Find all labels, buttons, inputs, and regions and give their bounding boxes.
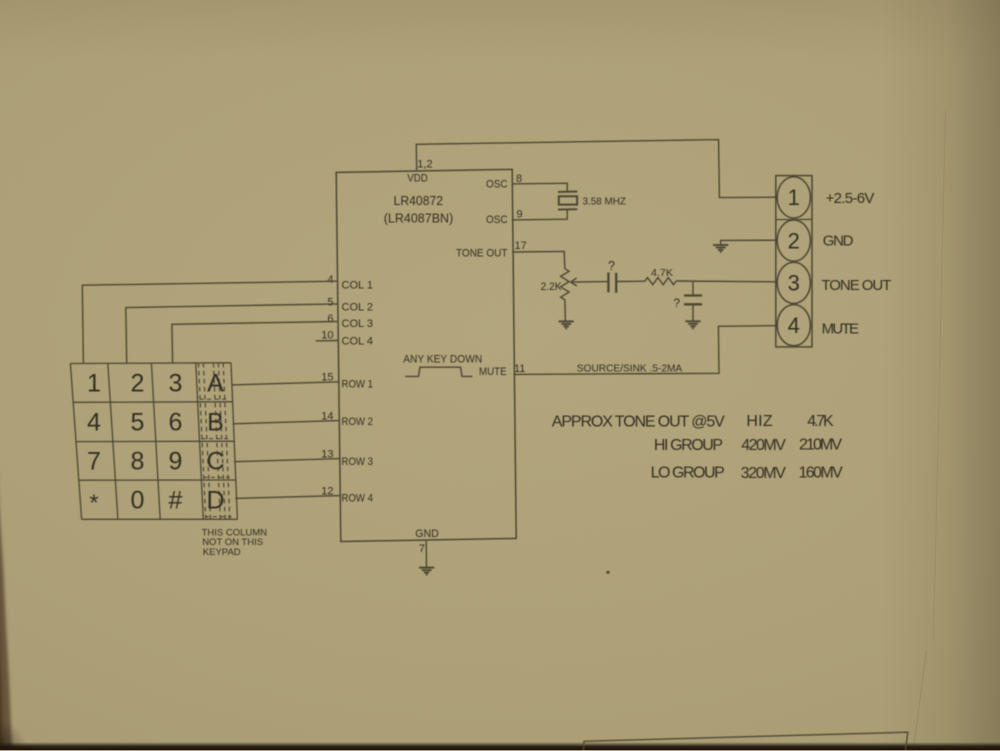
wire COL3: IC pin 6 to keypad column 3 xyxy=(172,322,337,364)
IC pin name labels xyxy=(342,172,508,540)
wire ROW1: keypad to IC pin 15 xyxy=(232,382,339,385)
svg-text:3.58 MHZ: 3.58 MHZ xyxy=(583,196,627,208)
svg-text:420MV: 420MV xyxy=(741,437,786,454)
svg-text:2: 2 xyxy=(131,369,145,397)
svg-text:ROW 2: ROW 2 xyxy=(342,416,374,428)
svg-text:11: 11 xyxy=(514,363,525,375)
svg-text:#: # xyxy=(169,487,183,515)
pot wiper arrow xyxy=(571,278,608,286)
any-key-down pulse waveform xyxy=(405,367,472,376)
svg-text:LR40872: LR40872 xyxy=(394,193,444,208)
svg-text:*: * xyxy=(90,490,99,516)
connector pin numbers xyxy=(788,185,800,338)
svg-text:GND: GND xyxy=(823,233,854,250)
svg-text:KEYPAD: KEYPAD xyxy=(203,547,241,558)
wire TONE OUT pin 17 xyxy=(512,251,565,268)
svg-text:5: 5 xyxy=(131,409,145,437)
keypad key legends xyxy=(87,369,224,515)
dashed lines: phantom 4th keypad column xyxy=(198,363,231,520)
svg-text:(LR4087BN): (LR4087BN) xyxy=(384,210,454,225)
svg-text:7: 7 xyxy=(87,448,101,476)
svg-text:10: 10 xyxy=(321,330,333,342)
svg-text:COL 3: COL 3 xyxy=(342,318,374,330)
wire VDD net: IC pins 1,2 to connector pin 1 xyxy=(416,140,776,198)
svg-text:8: 8 xyxy=(131,448,145,476)
svg-text:ANY KEY DOWN: ANY KEY DOWN xyxy=(403,353,482,365)
wire COL4 stub: IC pin 10 xyxy=(316,340,338,342)
wire ROW4: keypad to IC pin 12 xyxy=(235,496,341,499)
svg-text:9: 9 xyxy=(169,448,183,476)
svg-text:VDD: VDD xyxy=(407,172,428,184)
svg-text:GND: GND xyxy=(415,528,439,540)
IC U1 LR40872 body xyxy=(336,169,516,541)
svg-text:A: A xyxy=(207,369,224,397)
svg-text:3: 3 xyxy=(169,369,183,397)
svg-text:LO GROUP: LO GROUP xyxy=(651,465,725,482)
potentiometer R1 2.2K xyxy=(561,269,570,321)
svg-text:SOURCE/SINK .5-2MA: SOURCE/SINK .5-2MA xyxy=(577,362,682,374)
svg-text:9: 9 xyxy=(517,208,523,220)
svg-text:HIZ: HIZ xyxy=(746,413,773,430)
IC pin numbers xyxy=(321,159,527,555)
title block (bottom, mostly cropped) xyxy=(583,732,907,750)
svg-text:4: 4 xyxy=(87,409,101,437)
connector pin 3 circle xyxy=(777,262,810,303)
bottom-left corner extra dark xyxy=(0,700,60,750)
wire ROW3: keypad to IC pin 13 xyxy=(234,459,340,462)
svg-text:5: 5 xyxy=(327,297,333,309)
svg-text:?: ? xyxy=(673,296,680,310)
top edge darkening xyxy=(0,0,1000,60)
svg-text:MUTE: MUTE xyxy=(822,320,859,337)
svg-text:1: 1 xyxy=(788,185,800,210)
resistor R2 4.7K xyxy=(645,278,676,285)
svg-text:4: 4 xyxy=(788,313,800,338)
connector J1 4-pin header xyxy=(776,176,812,347)
ground xyxy=(559,321,574,328)
wire OSC pin 9 xyxy=(512,210,568,220)
bottom-right crease xyxy=(913,650,928,751)
wire OSC pin 8 xyxy=(512,183,567,192)
svg-text:3: 3 xyxy=(788,271,800,296)
svg-text:APPROX TONE OUT @5V: APPROX TONE OUT @5V xyxy=(552,414,725,431)
svg-text:6: 6 xyxy=(169,409,183,437)
stray ink dot xyxy=(606,571,609,574)
connector pin 1 circle xyxy=(777,177,810,218)
svg-text:17: 17 xyxy=(515,240,527,252)
svg-text:C: C xyxy=(206,448,224,476)
connector pin 4 circle xyxy=(777,305,810,346)
svg-text:210MV: 210MV xyxy=(799,437,842,454)
crystal Y1 3.58 MHZ xyxy=(558,192,577,210)
ground xyxy=(685,321,700,328)
svg-text:1: 1 xyxy=(87,369,101,397)
note: phantom column xyxy=(202,528,268,558)
bottom dark band xyxy=(0,742,1000,751)
connector pin 2 circle xyxy=(777,220,810,261)
wire resistor to connector pin 3 xyxy=(676,280,776,283)
svg-text:8: 8 xyxy=(516,173,522,185)
wire COL1: IC pin 4 to keypad column 1 xyxy=(82,281,336,363)
svg-text:ROW 3: ROW 3 xyxy=(342,456,374,468)
svg-text:COL 4: COL 4 xyxy=(342,335,374,347)
svg-text:4.7K: 4.7K xyxy=(651,267,673,279)
svg-text:1,2: 1,2 xyxy=(417,159,432,171)
svg-text:4: 4 xyxy=(327,274,333,286)
svg-text:COL 1: COL 1 xyxy=(342,280,374,292)
svg-text:2.2K: 2.2K xyxy=(541,281,563,293)
ground connector pin 2 xyxy=(713,245,728,252)
table: approx tone out levels xyxy=(552,413,843,482)
svg-text:B: B xyxy=(207,409,224,437)
capacitor C2 (shunt, value ?) xyxy=(692,281,694,295)
capacitor C1 (series, value ?) xyxy=(608,273,616,293)
svg-text:ROW 1: ROW 1 xyxy=(342,379,374,391)
svg-text:HI GROUP: HI GROUP xyxy=(654,437,723,454)
right paper edge line xyxy=(933,110,946,640)
svg-text:6: 6 xyxy=(327,313,333,325)
svg-text:OSC: OSC xyxy=(486,214,508,226)
svg-text:2: 2 xyxy=(788,228,800,253)
keypad 4x4 matrix outline xyxy=(70,363,237,520)
svg-text:MUTE: MUTE xyxy=(479,366,507,378)
svg-text:D: D xyxy=(206,487,224,515)
left paper-edge shadow wedge (lower left) xyxy=(0,0,60,750)
wire MUTE: IC pin 11 to connector pin 4 xyxy=(514,326,776,375)
ground IC pin 7 xyxy=(419,568,434,575)
svg-text:320MV: 320MV xyxy=(741,465,787,482)
svg-text:4.7K: 4.7K xyxy=(807,413,834,430)
svg-text:ROW 4: ROW 4 xyxy=(342,492,374,504)
wire GND pin 7 xyxy=(425,541,427,567)
wire GND: connector pin 2 to ground xyxy=(721,240,776,245)
svg-text:160MV: 160MV xyxy=(798,464,843,481)
svg-text:0: 0 xyxy=(131,487,145,515)
svg-text:TONE OUT: TONE OUT xyxy=(821,277,891,294)
svg-text:+2.5-6V: +2.5-6V xyxy=(826,190,875,207)
svg-text:7: 7 xyxy=(419,543,425,555)
svg-text:?: ? xyxy=(608,259,615,273)
connector signal labels xyxy=(821,190,891,337)
wire COL2: IC pin 5 to keypad column 2 xyxy=(126,304,337,363)
right side darkening xyxy=(880,0,1000,750)
svg-text:TONE OUT: TONE OUT xyxy=(456,247,508,259)
wire ROW2: keypad to IC pin 14 xyxy=(233,421,340,424)
IC part number labels xyxy=(384,193,454,225)
svg-text:OSC: OSC xyxy=(486,179,508,191)
svg-text:COL 2: COL 2 xyxy=(342,302,374,314)
wire cap to resistor xyxy=(616,280,645,282)
